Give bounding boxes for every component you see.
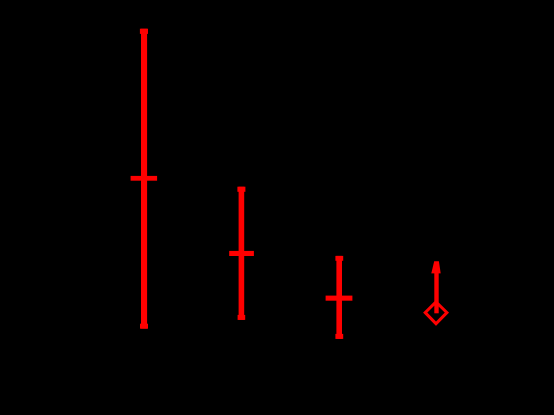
error bar 2 vertical line — [239, 187, 245, 320]
error bar 1 bottom cap — [140, 324, 148, 329]
error bar 4 upper-limit caret arrowhead — [431, 261, 440, 273]
error bar 2 top cap — [237, 187, 245, 192]
data marker 2 horizontal tick — [229, 251, 254, 256]
data marker 4 open diamond — [425, 302, 447, 324]
error bar 1 vertical line — [141, 29, 147, 329]
error bar 3 bottom cap — [335, 334, 343, 339]
error bar 1 top cap — [140, 29, 148, 34]
error bar 3 top cap — [335, 256, 343, 261]
error bar 4 vertical line — [434, 273, 438, 314]
data marker 3 horizontal tick — [326, 296, 353, 301]
data marker 1 horizontal tick — [131, 176, 158, 181]
error bar 2 bottom cap — [238, 315, 246, 320]
error bar 3 vertical line — [336, 256, 342, 339]
